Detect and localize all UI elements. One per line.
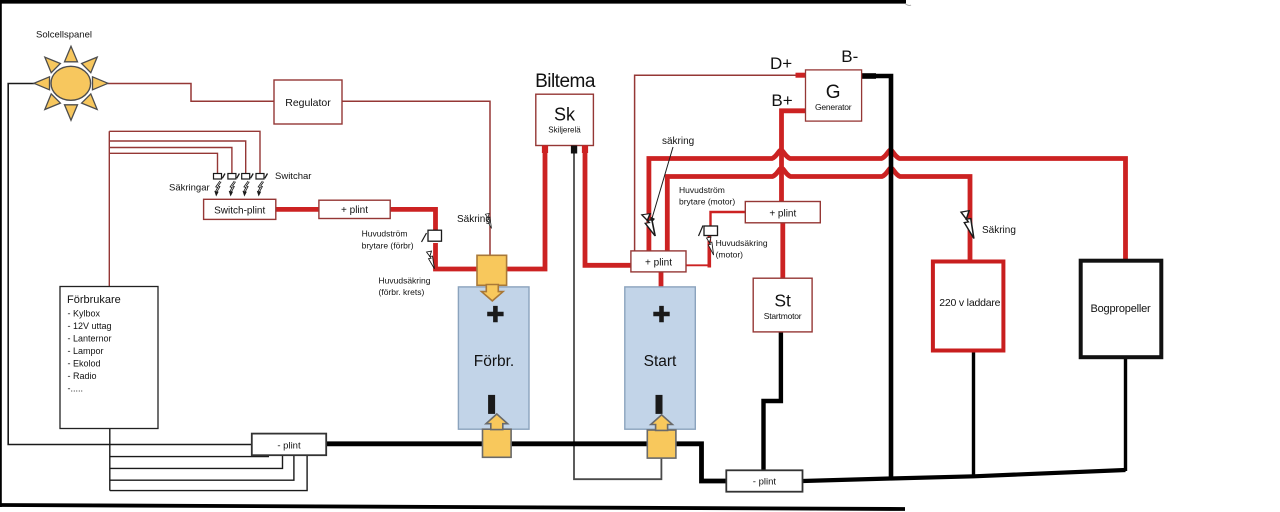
fuse bolt under switch S3 [243, 181, 249, 196]
Förbr battery plus terminal [487, 306, 503, 322]
säkring bolt on bus1 drop [642, 214, 655, 236]
svg-text:+ plint: + plint [769, 209, 796, 220]
solar panel sun symbol [34, 46, 108, 120]
svg-text:Switchar: Switchar [275, 171, 311, 182]
wire: + plint (start) down to Start battery plus [659, 272, 664, 288]
svg-text:220 v laddare: 220 v laddare [939, 297, 1000, 309]
wire: generator B+ thick red down across buses to + plint (motor) [782, 111, 807, 202]
svg-text:brytare (motor): brytare (motor) [679, 197, 735, 207]
Sk red terminal stub right [582, 146, 588, 154]
svg-text:Huvudsäkring: Huvudsäkring [379, 276, 431, 286]
end-of-top-border hook mark [905, 4, 911, 6]
wire: bottom border frame [0, 505, 905, 509]
svg-text:Biltema: Biltema [535, 71, 596, 92]
svg-text:Generator: Generator [815, 102, 852, 112]
svg-text:Switch-plint: Switch-plint [214, 206, 265, 217]
Förbr battery [458, 287, 529, 429]
wire: + plint (motor) left to Huvudström brytare (motor) [711, 212, 746, 226]
Start minus yellow fuse with arrow up [647, 415, 676, 458]
wire: Förbrukare return line 1 [110, 455, 268, 456]
wire: Förbrukare return line 3 [110, 455, 294, 480]
Biltema Sk skiljerelä box [536, 94, 594, 145]
svg-text:B+: B+ [771, 91, 792, 110]
fuse bolt under switch S4 [257, 181, 263, 196]
wire: thick red + plint to Huvudström brytare (förbr) [390, 209, 436, 230]
Start battery [625, 287, 696, 429]
wire: red bus 1 (säkring drop to + plint start, humps, to Bogpropeller) [649, 150, 1126, 261]
wire: thick red brytare to Huvudsäkring (förbr) yellow box [436, 243, 478, 269]
svg-text:Bogpropeller: Bogpropeller [1091, 303, 1152, 315]
wire: bundle branch 2 to switch 3 [109, 141, 245, 174]
fuse bolt under switch S2 [229, 181, 235, 196]
Huvudsäkring (motor) bolt [706, 237, 713, 255]
Bogpropeller box [1081, 261, 1162, 358]
wire: generator B- black down to minus rail [862, 76, 891, 479]
Huvudström brytare (förbr) switch symbol [422, 230, 442, 242]
wire: generator B- stub [862, 73, 876, 79]
wire: thick red Huvudsäkring yellow box to Sk left terminal [507, 150, 545, 269]
wire: thick red Switch-plint to + plint [276, 207, 319, 212]
svg-text:Startmotor: Startmotor [764, 311, 802, 321]
svg-text:+ plint: + plint [341, 205, 368, 216]
svg-text:- Kylbox: - Kylbox [68, 309, 101, 319]
switch S3 [242, 174, 254, 180]
wire: red bus 2 (drop to + plint start, humps, to 220v laddare) [667, 168, 970, 263]
svg-text:G: G [826, 82, 841, 103]
svg-text:+ plint: + plint [645, 258, 672, 269]
Huvudsäkring (förbr) bolt [427, 251, 435, 269]
svg-text:- 12V uttag: - 12V uttag [68, 321, 112, 331]
wire: minus rail from - plint (right) to chargers [803, 470, 1126, 481]
svg-text:Huvudsäkring: Huvudsäkring [716, 238, 768, 248]
- plint box (right) [726, 470, 802, 491]
svg-text:- Lampor: - Lampor [68, 346, 104, 356]
wire: Regulator output down to Huvudsäkring (förbr) [342, 101, 490, 255]
svg-text:Förbr.: Förbr. [474, 353, 514, 370]
svg-text:D+: D+ [770, 54, 792, 73]
wire: left border frame [0, 0, 2, 507]
wire: top border frame [0, 0, 906, 4]
Switch-plint box [204, 199, 276, 219]
svg-text:Förbrukare: Förbrukare [67, 294, 121, 306]
Sk red terminal stub left [542, 146, 548, 154]
svg-text:(motor): (motor) [716, 250, 744, 260]
Förbr minus yellow fuse with arrow up [483, 414, 512, 457]
wire: Bogpropeller minus down [1124, 358, 1127, 471]
wire: + plint (start) right to motor fuse chain [686, 264, 709, 266]
wire: Förbrukare return line 4 [110, 455, 307, 490]
säkring label arrow line [650, 147, 673, 225]
fuse bolt under switch S1 [214, 181, 220, 196]
Förbrukare consumers box [60, 287, 158, 429]
Sk black terminal stub center [571, 146, 577, 154]
wire: solar panel plus (dark red) from sun right to Regulator [108, 84, 275, 102]
svg-text:Huvudström: Huvudström [679, 185, 725, 195]
svg-text:- Lanternor: - Lanternor [68, 334, 112, 344]
G generator box [806, 70, 862, 121]
wire: Förbrukare return line 2 [110, 455, 283, 468]
wire: Sk black center wire down right and up to Start minus fuse [574, 150, 661, 479]
- plint box (left) [252, 434, 326, 456]
wire: main minus bus from - plint to - plint (right) [326, 444, 726, 481]
wire: Sk right red terminal down to + plint (start) [585, 150, 631, 265]
svg-text:Skiljerelä: Skiljerelä [548, 126, 581, 135]
svg-text:- Radio: - Radio [68, 371, 97, 381]
wire: bundle branch 3 to switch 2 [109, 148, 232, 174]
svg-text:säkring: säkring [662, 136, 694, 147]
wire: consumer feed bundle riser to Förbrukare [108, 131, 110, 286]
220 v laddare box [933, 262, 1004, 351]
Förbr battery minus bar [488, 395, 495, 414]
svg-text:B-: B- [841, 47, 858, 66]
svg-text:-.....: -..... [68, 384, 84, 394]
switch S1 [214, 174, 226, 180]
St startmotor box [753, 278, 812, 332]
svg-text:Start: Start [644, 353, 677, 370]
wire: generator D+ red stub [796, 73, 806, 78]
wire: bundle branch 4 to switch 1 [109, 153, 217, 173]
svg-text:Säkring: Säkring [982, 225, 1016, 236]
säkring bolt on regulator wire [485, 213, 491, 228]
svg-text:- plint: - plint [277, 441, 301, 452]
Huvudström brytare (motor) switch symbol [699, 226, 718, 237]
Start battery plus terminal [653, 306, 669, 322]
svg-text:Säkring: Säkring [457, 214, 491, 225]
svg-text:St: St [774, 291, 791, 311]
svg-text:(förbr. krets): (förbr. krets) [379, 287, 425, 297]
switch S4 [256, 174, 268, 180]
wire: Förbrukare bottom riser [109, 429, 111, 491]
svg-text:Solcellspanel: Solcellspanel [36, 30, 92, 41]
svg-text:- plint: - plint [753, 477, 777, 488]
wire: generator D+ thin red to + plint (start) [635, 75, 806, 251]
svg-text:Sk: Sk [554, 105, 576, 125]
+ plint (motor) box [745, 202, 820, 223]
+ plint (start) box [631, 251, 686, 272]
Säkring bolt on laddare wire [961, 211, 974, 239]
svg-text:- Ekolod: - Ekolod [68, 359, 101, 369]
Huvudsäkring (förbr. krets) yellow fuse box with arrow into Förbr battery [477, 255, 507, 301]
svg-text:Regulator: Regulator [285, 97, 331, 109]
svg-text:Huvudström: Huvudström [362, 229, 408, 239]
+ plint (förbr) box [319, 200, 390, 218]
wire: solar panel minus (black) from sun left down and right to - plint [8, 84, 252, 445]
wire: + plint (motor) down to St startmotor [780, 223, 785, 278]
svg-text:brytare (förbr): brytare (förbr) [362, 241, 414, 251]
wire: brytare (motor) down through Huvudsäkring (motor) to + plint (start) link [707, 236, 711, 268]
switch S2 [228, 174, 240, 180]
wire: bundle branch 1 to switch 4 [109, 131, 260, 173]
Start battery minus bar [656, 395, 663, 414]
wire: 220v laddare minus down [972, 349, 975, 477]
regulator box [274, 80, 342, 124]
wire: St startmotor minus down to - plint (right) [764, 332, 781, 470]
svg-text:Säkringar: Säkringar [169, 183, 210, 194]
